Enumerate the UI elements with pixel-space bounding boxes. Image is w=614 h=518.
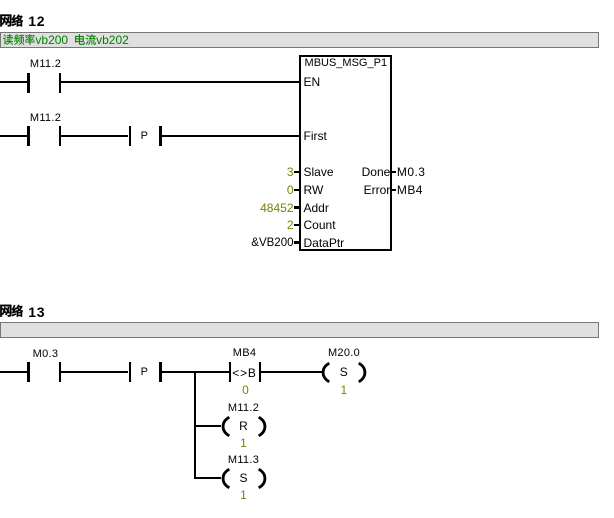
U1 input pin label First	[304, 127, 327, 145]
label M0.3 (contact K3)	[33, 349, 59, 360]
coil R M11.2	[221, 416, 267, 437]
label M11.3 (coil S)	[228, 455, 259, 466]
function block U1 MBUS_MSG_P1 box	[299, 55, 392, 251]
contact K1 right bar	[59, 73, 62, 93]
network 13 title 网络 13	[0, 290, 50, 320]
wire: node N1 to coil S M11.3	[196, 477, 221, 479]
label MB4 (compare contact C1)	[233, 348, 257, 359]
U1 input pin label Addr	[304, 199, 329, 217]
U1 input value 3	[230, 163, 294, 181]
U1 input tick DataPtr	[294, 241, 300, 244]
contact K2 left bar	[27, 126, 30, 146]
contact K3 left bar	[27, 362, 30, 382]
wire: P1 to First pin	[162, 135, 300, 137]
U1 input tick RW	[294, 189, 300, 192]
wire: left rail to contact K1	[0, 81, 28, 83]
network 12 comment bar	[0, 32, 599, 48]
label M11.2 (coil R)	[228, 403, 259, 414]
U1 output pin label Done	[330, 163, 390, 181]
U1 input pin label EN	[304, 73, 321, 91]
contact K1 left bar	[27, 73, 30, 93]
U1 input tick Count	[294, 224, 300, 227]
coil M20.0 value 1	[340, 384, 347, 396]
compare contact C1 left bar	[229, 362, 232, 382]
wire: contact K2 to edge contact P1	[61, 135, 128, 137]
U1 input tick Addr	[294, 206, 300, 209]
edge contact P2 right bar	[159, 362, 162, 382]
U1 Error output operand MB4	[397, 181, 423, 199]
edge contact P1 right bar	[159, 126, 162, 146]
coil S M11.3	[221, 468, 267, 489]
U1 input tick Slave	[294, 171, 300, 174]
label M20.0 (coil S)	[328, 348, 360, 359]
compare value 0	[242, 384, 249, 396]
U1 input value 48452	[230, 199, 294, 217]
U1 input pin label Slave	[304, 163, 334, 181]
wire: left rail to contact K3	[0, 371, 28, 373]
U1 input value 2	[230, 216, 294, 234]
edge contact P1 letter	[141, 131, 149, 142]
node N1 branch vertical wire	[194, 371, 196, 479]
U1 output pin label Error	[330, 181, 390, 199]
U1 output tick Done	[392, 171, 396, 174]
U1 title MBUS_MSG_P1	[301, 57, 390, 69]
edge contact P2 left bar	[129, 362, 132, 382]
label M11.2 (contact K2)	[30, 113, 61, 124]
U1 input value 0	[230, 181, 294, 199]
network 13 comment bar (empty)	[0, 322, 599, 339]
edge contact P1 left bar	[129, 126, 132, 146]
wire: node N1 to coil R M11.2	[196, 425, 221, 427]
wire: contact K1 to EN pin	[61, 81, 299, 83]
compare contact C1 text	[232, 367, 256, 379]
coil S value 1	[240, 489, 247, 501]
wire: C1 to coil M20.0	[261, 371, 322, 373]
coil S M20.0	[321, 362, 367, 383]
contact K2 right bar	[59, 126, 62, 146]
U1 Done output operand M0.3	[397, 163, 425, 181]
network 12 comment text 读频率vb200 电流vb202	[0, 30, 100, 50]
label M11.2 (contact K1)	[30, 59, 61, 70]
wire: P2 through node N1 to compare contact C1	[162, 371, 229, 373]
U1 input pin label Count	[304, 216, 336, 234]
wire: left rail to contact K2	[0, 135, 28, 137]
U1 input value &amp;VB200	[230, 234, 294, 252]
coil R value 1	[240, 437, 247, 449]
contact K3 right bar	[59, 362, 62, 382]
U1 input pin label RW	[304, 181, 324, 199]
compare contact C1 right bar	[259, 362, 262, 382]
U1 output tick Error	[392, 189, 396, 192]
wire: contact K3 to edge contact P2	[61, 371, 128, 373]
U1 input pin label DataPtr	[304, 234, 345, 252]
edge contact P2 letter	[141, 367, 149, 378]
network 12 title 网络 12	[0, 0, 50, 30]
